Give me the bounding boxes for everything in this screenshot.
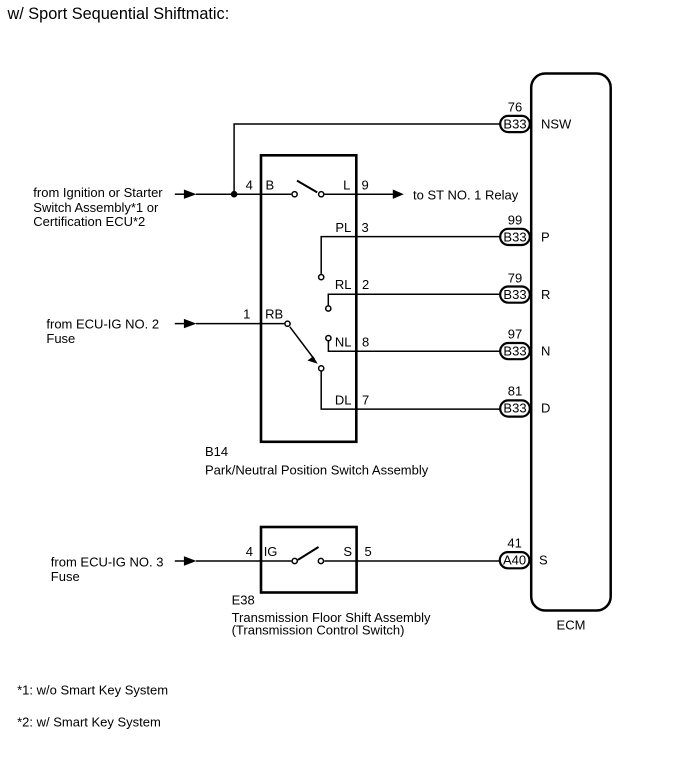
svg-text:4: 4 [246,177,253,192]
svg-text:NSW: NSW [541,117,572,132]
svg-text:RB: RB [265,307,283,322]
connector B33 pin 99 P [500,212,549,245]
wire PL to ECM P [321,237,499,274]
svg-text:w/ Sport Sequential Shiftmatic: w/ Sport Sequential Shiftmatic: [7,5,230,23]
svg-text:IG: IG [264,544,278,559]
wire NL to ECM N [328,341,499,351]
pin 4 IG label [246,544,278,559]
svg-text:P: P [541,229,550,244]
connector B33 pin 81 D [500,384,550,417]
E38 box [261,527,357,593]
pin 4 B label [246,177,275,192]
RL contact circle [326,306,331,311]
pin PL 3 label [335,220,368,235]
connector B33 pin 76 NSW [500,100,572,133]
svg-text:from Ignition or Starter: from Ignition or Starter [33,185,163,200]
wire S to ECM [324,560,499,562]
RB common contact circle [285,321,290,326]
wire IG [196,560,291,562]
pin DL 7 label [335,392,369,407]
E38 switch blade [298,547,319,560]
PL contact circle [319,275,324,280]
pin RL 2 label [335,277,369,292]
wire junction to NSW pin [234,124,499,194]
svg-text:DL: DL [335,392,352,407]
B14 box [261,155,356,442]
arrow from ECU-IG NO.2 [175,319,197,328]
svg-text:8: 8 [362,334,369,349]
svg-text:from ECU-IG NO. 3: from ECU-IG NO. 3 [51,555,164,570]
from Ignition label [33,185,163,229]
svg-text:79: 79 [508,271,522,286]
svg-text:B33: B33 [503,401,526,416]
svg-text:RL: RL [335,277,352,292]
svg-text:B14: B14 [205,444,228,459]
switch B-L contact circles [292,192,324,197]
svg-text:3: 3 [362,220,369,235]
svg-text:81: 81 [508,384,522,399]
svg-text:*1: w/o Smart Key System: *1: w/o Smart Key System [17,683,168,698]
svg-text:(Transmission Control Switch): (Transmission Control Switch) [232,623,405,638]
D contact circle [319,366,324,371]
svg-text:9: 9 [362,177,369,192]
svg-text:R: R [541,287,550,302]
from ECU-IG NO.2 label [46,316,159,346]
svg-text:L: L [343,177,350,192]
pin L 9 label [343,177,369,192]
NL contact circle [326,336,331,341]
svg-text:A40: A40 [503,553,526,568]
svg-text:97: 97 [508,327,522,342]
svg-text:76: 76 [508,100,522,115]
svg-text:to ST NO. 1 Relay: to ST NO. 1 Relay [413,187,519,202]
from ECU-IG NO.3 label [51,555,164,584]
pin 1 RB label [243,307,283,322]
wire RB [196,323,284,325]
svg-text:B33: B33 [503,344,526,359]
junction node [231,191,238,198]
svg-text:Certification ECU*2: Certification ECU*2 [33,214,145,229]
svg-text:from ECU-IG NO. 2: from ECU-IG NO. 2 [46,316,159,331]
svg-text:S: S [343,544,352,559]
svg-text:5: 5 [365,544,372,559]
svg-text:Fuse: Fuse [46,331,75,346]
wire L to relay [325,193,394,195]
svg-text:7: 7 [362,392,369,407]
svg-text:Fuse: Fuse [51,569,80,584]
svg-text:Switch Assembly*1 or: Switch Assembly*1 or [33,200,159,215]
arrow from ECU-IG NO.3 [175,556,197,565]
svg-text:2: 2 [362,277,369,292]
svg-text:E38: E38 [232,592,255,607]
svg-text:1: 1 [243,307,250,322]
wire RL to ECM R [328,294,499,305]
connector B33 pin 79 R [500,271,550,303]
svg-text:B33: B33 [503,229,526,244]
svg-text:B: B [266,177,275,192]
svg-text:S: S [539,553,548,568]
selector arrow blade [290,327,318,364]
arrow to relay [393,190,404,199]
pin NL 8 label [335,334,369,349]
svg-text:B33: B33 [503,287,526,302]
svg-text:*2: w/ Smart Key System: *2: w/ Smart Key System [17,714,161,729]
svg-text:Park/Neutral Position Switch A: Park/Neutral Position Switch Assembly [205,463,429,478]
svg-text:NL: NL [335,334,352,349]
pin S 5 label [343,544,371,559]
wire DL to ECM D [321,371,499,409]
svg-text:B33: B33 [503,117,526,132]
wire ignition to switch B [196,193,291,195]
switch B-L blade [297,181,317,193]
svg-text:99: 99 [508,212,522,227]
arrow from Ignition [175,190,197,199]
svg-text:ECM: ECM [557,618,586,633]
svg-text:N: N [541,344,550,359]
svg-text:41: 41 [507,536,521,551]
ECM box [531,74,611,611]
svg-text:D: D [541,401,550,416]
svg-text:4: 4 [246,544,253,559]
connector B33 pin 97 N [500,327,550,360]
connector A40 pin 41 S [500,536,548,569]
E38 switch contact circles [292,558,323,563]
svg-text:PL: PL [335,220,351,235]
